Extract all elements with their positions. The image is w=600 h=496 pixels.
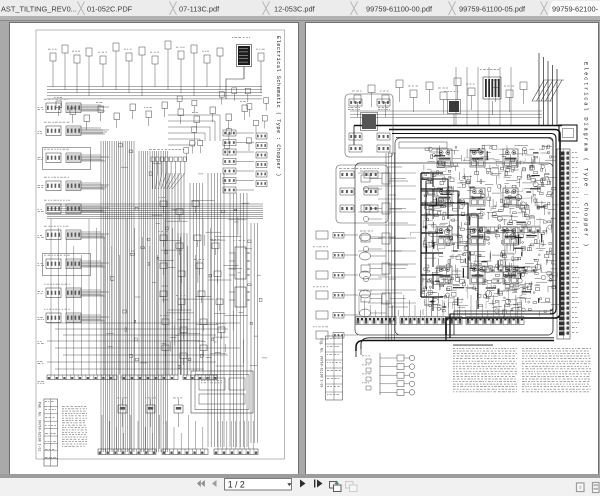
top components row — [350, 78, 542, 117]
stepped wires — [168, 115, 220, 145]
second row components — [54, 97, 248, 131]
fuse group box — [336, 165, 388, 223]
first page button — [197, 480, 201, 487]
svg-text:1 / 2: 1 / 2 — [228, 479, 245, 489]
viewer bottom border band — [0, 474, 600, 478]
tab separator — [351, 2, 358, 16]
single page view icon — [577, 483, 585, 492]
tab separator — [170, 2, 177, 16]
bar feed wires — [359, 295, 521, 317]
alternator (dark striped) — [480, 69, 501, 115]
connector pair CN9 — [44, 308, 103, 322]
svg-text:Pub. No. 99759-62100 2-51: Pub. No. 99759-62100 2-51 — [37, 402, 41, 451]
upper right parts — [177, 87, 269, 160]
connector pair CN4 — [44, 176, 103, 190]
bottom thick bus — [356, 314, 554, 351]
legend text block — [62, 406, 87, 447]
controller unit box — [191, 371, 253, 413]
svg-text:Electrical Diagram ( Type : Ch: Electrical Diagram ( Type : Chopper ) — [582, 62, 588, 248]
bottom drop wires — [102, 415, 253, 449]
svg-text:Fig. No. 99759-61100 2-55: Fig. No. 99759-61100 2-55 — [319, 338, 323, 387]
top sensors and switches — [48, 41, 265, 96]
connector pair CN5 — [44, 199, 103, 213]
cluster wiring detail — [422, 145, 561, 319]
title block — [319, 336, 342, 400]
mid-page components — [158, 197, 226, 365]
previous page button — [212, 480, 217, 487]
central vertical wire bus — [101, 141, 168, 452]
lamps and horn — [359, 233, 386, 317]
thick bus stubs — [421, 173, 478, 311]
bus drop wires — [51, 219, 211, 375]
switch symbols SW1-SW3 — [117, 397, 183, 427]
cluster dark accents — [426, 150, 545, 306]
svg-text:99759-61100-00.pdf: 99759-61100-00.pdf — [366, 5, 433, 14]
schematic sheet frame — [36, 30, 285, 459]
battery connector (dark multi-pin) — [226, 37, 252, 99]
cluster meander wires — [410, 154, 557, 315]
tab separator — [541, 2, 548, 16]
terminal bar TB2 — [98, 449, 258, 455]
right connector stacks — [223, 130, 267, 193]
sheet title text — [582, 62, 588, 248]
title block — [37, 399, 57, 466]
connector pair CN8 — [44, 283, 103, 297]
connector pair CN2 — [44, 121, 103, 135]
previous view button (enabled) — [330, 482, 338, 489]
controller panel border — [355, 138, 553, 335]
diode ladder — [149, 149, 187, 189]
tab separator — [263, 2, 270, 16]
legend text — [453, 344, 591, 392]
tab separator — [78, 2, 85, 16]
left feed wires — [388, 153, 408, 335]
connector pair CN3 — [42, 147, 103, 169]
panel left-section components — [360, 170, 406, 303]
active tab background — [548, 1, 600, 16]
svg-text:Electrical Schematic ( Type :: Electrical Schematic ( Type : Chopper ) — [275, 36, 281, 177]
bottom connector bars — [356, 316, 524, 324]
svg-text:07-113C.pdf: 07-113C.pdf — [179, 5, 220, 14]
lower horizontal wires — [47, 323, 240, 369]
tab separator — [449, 2, 456, 16]
top distribution wires — [47, 86, 262, 98]
instrument group box — [345, 94, 393, 157]
edge connector strip — [557, 149, 570, 339]
connector pair CN1 — [44, 98, 103, 112]
left page: electrical schematic — [9, 22, 299, 475]
connector pair CN6 — [44, 225, 103, 239]
svg-text:99759-62100-: 99759-62100- — [552, 5, 599, 14]
right vertical harness — [166, 173, 257, 447]
svg-text:99759-61100-05.pdf: 99759-61100-05.pdf — [459, 5, 526, 14]
tab bar — [0, 0, 600, 21]
connector pair CN7 — [42, 253, 103, 275]
svg-text:01-052C.PDF: 01-052C.PDF — [87, 5, 133, 14]
last page button — [314, 480, 315, 488]
left harness verticals — [386, 153, 394, 341]
bottom toolbar — [0, 478, 600, 496]
key switch (dark) — [444, 91, 461, 125]
next view button (disabled) — [346, 482, 354, 489]
sheet title text — [275, 36, 281, 177]
small parts column — [362, 355, 371, 390]
svg-text:12-053C.pdf: 12-053C.pdf — [274, 5, 316, 14]
horizontal wire bus — [47, 204, 263, 219]
svg-text:AST_TILTING_REV0...: AST_TILTING_REV0... — [1, 5, 77, 14]
top thin drop wires — [456, 67, 511, 125]
thick power loop — [389, 125, 577, 335]
left-to-bus wires — [67, 105, 109, 321]
page number combo box — [225, 479, 292, 491]
next page button — [300, 480, 306, 488]
relay K1 K2 — [229, 240, 249, 307]
strip pin labels — [572, 152, 579, 333]
diagonal resistor bank — [532, 80, 564, 101]
jumper wires — [151, 200, 247, 366]
left margin wire labels — [37, 107, 44, 384]
terminal bar TB1 — [47, 375, 217, 380]
detail marks — [106, 143, 267, 368]
relay diode column — [356, 349, 415, 395]
inner terminal bars — [478, 227, 540, 272]
left column devices — [313, 231, 358, 339]
panel interior rails — [358, 173, 416, 303]
thyristor modules — [437, 149, 518, 284]
main power wire (thick) — [354, 125, 562, 145]
continuous view icon — [593, 483, 600, 493]
right page: electrical diagram — [305, 22, 599, 475]
thick wire bundle — [539, 53, 557, 126]
